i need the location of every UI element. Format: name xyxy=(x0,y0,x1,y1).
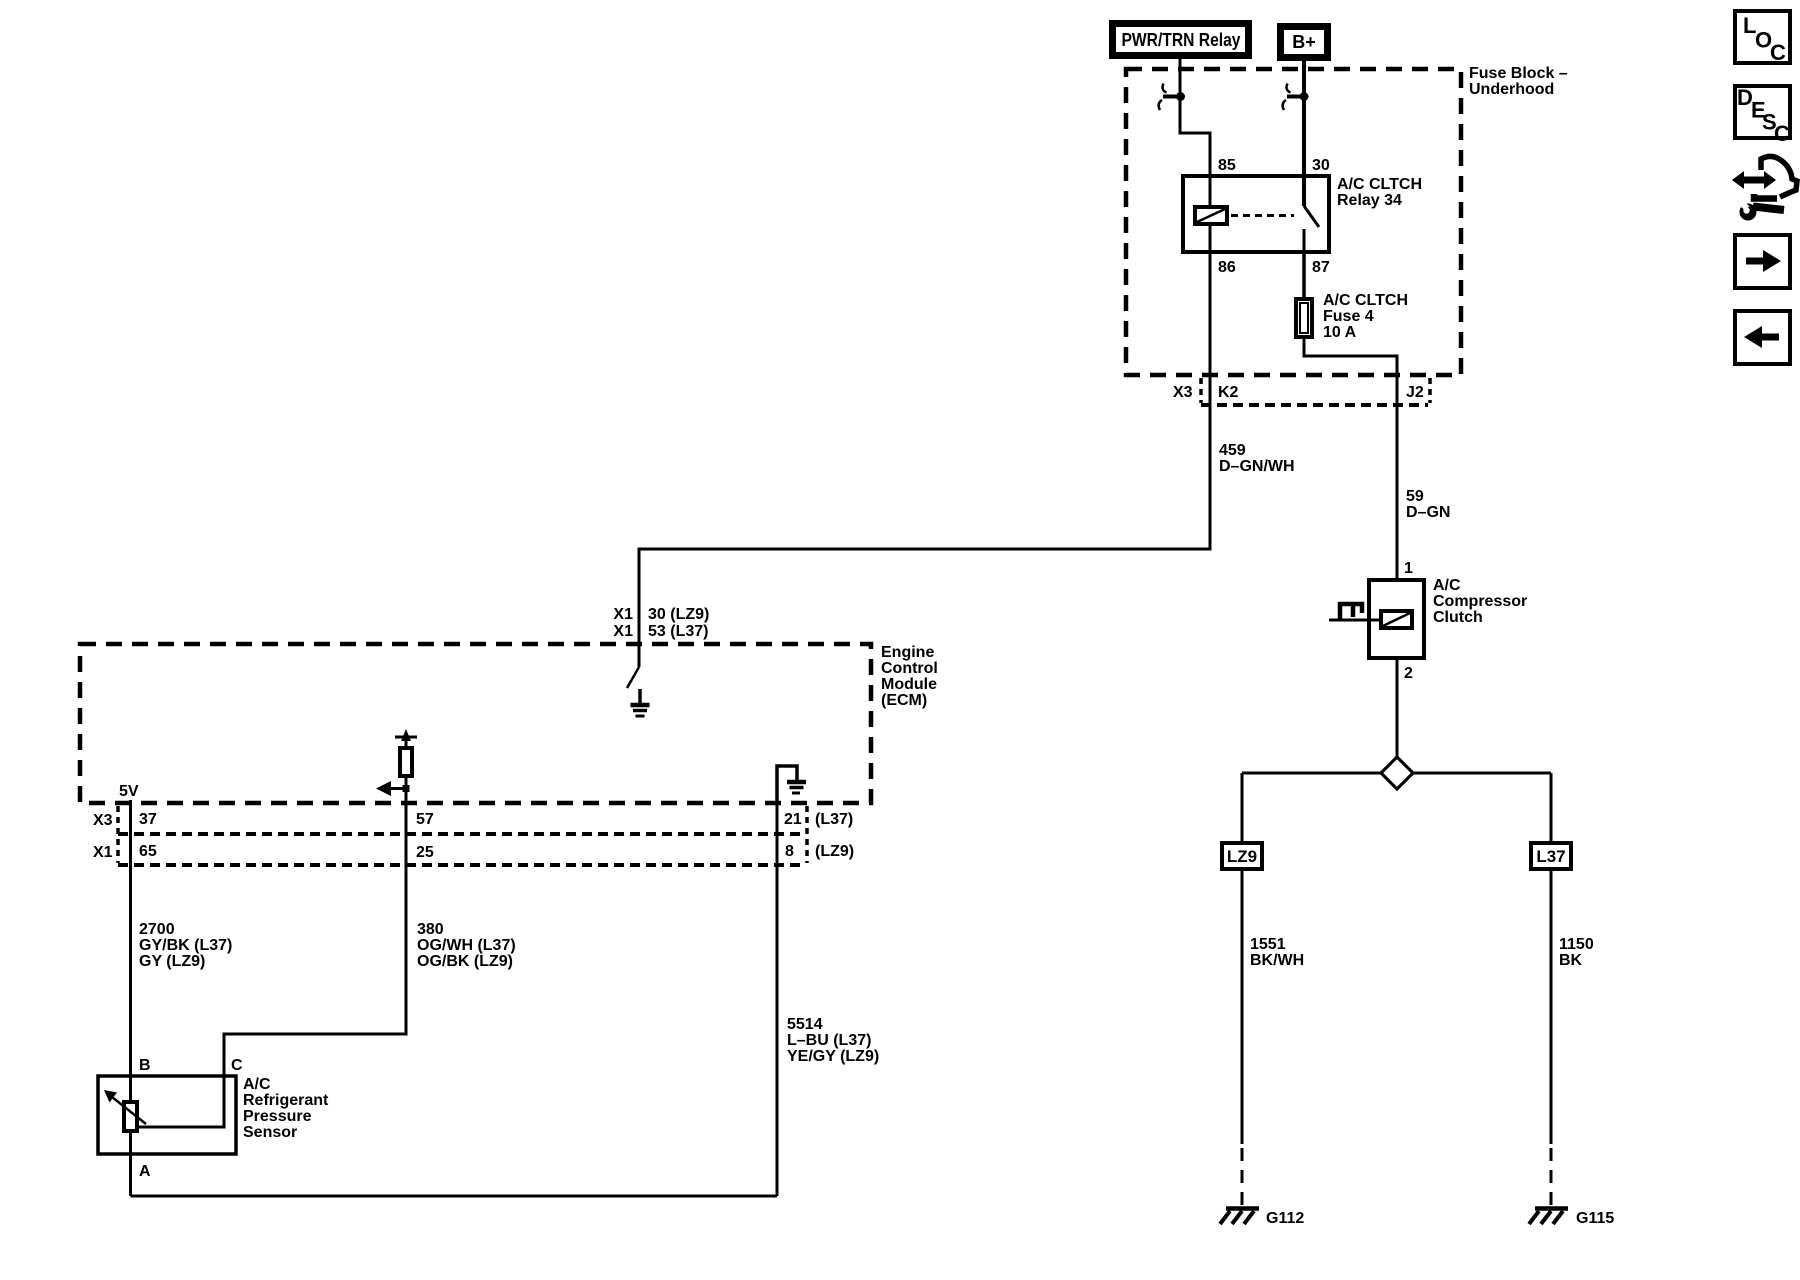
svg-text:Sensor: Sensor xyxy=(243,1124,297,1141)
svg-text:Relay 34: Relay 34 xyxy=(1337,192,1402,209)
svg-text:Pressure: Pressure xyxy=(243,1108,312,1125)
svg-text:B: B xyxy=(139,1057,151,1074)
svg-text:86: 86 xyxy=(1218,259,1236,276)
svg-text:YE/GY (LZ9): YE/GY (LZ9) xyxy=(787,1048,879,1065)
svg-text:OG/BK (LZ9): OG/BK (LZ9) xyxy=(417,953,513,970)
svg-text:87: 87 xyxy=(1312,259,1330,276)
svg-text:Module: Module xyxy=(881,676,937,693)
svg-text:1: 1 xyxy=(1404,560,1413,577)
svg-text:BK/WH: BK/WH xyxy=(1250,952,1304,969)
svg-text:BK: BK xyxy=(1559,952,1583,969)
svg-text:10 A: 10 A xyxy=(1323,324,1357,341)
svg-text:30 (LZ9): 30 (LZ9) xyxy=(648,606,709,623)
svg-text:C: C xyxy=(1770,40,1786,65)
svg-text:59: 59 xyxy=(1406,488,1424,505)
svg-text:8: 8 xyxy=(785,843,794,860)
svg-text:53 (L37): 53 (L37) xyxy=(648,623,708,640)
svg-text:21: 21 xyxy=(784,811,802,828)
svg-text:LZ9: LZ9 xyxy=(1227,847,1257,866)
svg-text:5V: 5V xyxy=(119,783,139,800)
svg-text:25: 25 xyxy=(416,844,434,861)
svg-text:GY (LZ9): GY (LZ9) xyxy=(139,953,205,970)
svg-text:Engine: Engine xyxy=(881,644,934,661)
svg-text:A/C: A/C xyxy=(1433,577,1461,594)
svg-text:PWR/TRN Relay: PWR/TRN Relay xyxy=(1122,30,1241,50)
svg-text:(ECM): (ECM) xyxy=(881,692,927,709)
svg-text:X3: X3 xyxy=(1173,384,1193,401)
svg-text:A/C: A/C xyxy=(243,1076,271,1093)
svg-text:Underhood: Underhood xyxy=(1469,81,1554,98)
svg-text:1150: 1150 xyxy=(1559,936,1594,953)
svg-text:C: C xyxy=(1774,121,1790,146)
svg-text:X3: X3 xyxy=(93,812,113,829)
svg-text:X1: X1 xyxy=(93,844,113,861)
svg-text:30: 30 xyxy=(1312,157,1330,174)
svg-text:380: 380 xyxy=(417,921,444,938)
svg-text:K2: K2 xyxy=(1218,384,1239,401)
svg-text:37: 37 xyxy=(139,811,157,828)
svg-text:G112: G112 xyxy=(1266,1210,1304,1227)
svg-text:G115: G115 xyxy=(1576,1210,1614,1227)
svg-text:C: C xyxy=(231,1057,243,1074)
svg-text:X1: X1 xyxy=(613,623,633,640)
svg-text:OG/WH (L37): OG/WH (L37) xyxy=(417,937,516,954)
svg-text:459: 459 xyxy=(1219,442,1246,459)
svg-text:B+: B+ xyxy=(1292,32,1316,52)
svg-text:Refrigerant: Refrigerant xyxy=(243,1092,329,1109)
svg-text:Clutch: Clutch xyxy=(1433,609,1483,626)
svg-text:X1: X1 xyxy=(613,606,633,623)
svg-text:Compressor: Compressor xyxy=(1433,593,1527,610)
svg-text:57: 57 xyxy=(416,811,434,828)
svg-text:A/C CLTCH: A/C CLTCH xyxy=(1323,292,1408,309)
svg-text:L–BU (L37): L–BU (L37) xyxy=(787,1032,871,1049)
svg-text:J2: J2 xyxy=(1406,384,1424,401)
svg-text:Fuse Block –: Fuse Block – xyxy=(1469,65,1568,82)
svg-text:2700: 2700 xyxy=(139,921,175,938)
svg-text:65: 65 xyxy=(139,843,157,860)
svg-text:A/C CLTCH: A/C CLTCH xyxy=(1337,176,1422,193)
svg-text:2: 2 xyxy=(1404,665,1413,682)
svg-text:L37: L37 xyxy=(1536,847,1565,866)
svg-text:GY/BK (L37): GY/BK (L37) xyxy=(139,937,232,954)
svg-text:D–GN: D–GN xyxy=(1406,504,1450,521)
svg-text:5514: 5514 xyxy=(787,1016,823,1033)
svg-text:1551: 1551 xyxy=(1250,936,1286,953)
svg-text:A: A xyxy=(139,1163,151,1180)
svg-text:Fuse 4: Fuse 4 xyxy=(1323,308,1374,325)
svg-text:(LZ9): (LZ9) xyxy=(815,843,854,860)
svg-text:D–GN/WH: D–GN/WH xyxy=(1219,458,1295,475)
svg-text:85: 85 xyxy=(1218,157,1236,174)
svg-text:Control: Control xyxy=(881,660,938,677)
svg-text:(L37): (L37) xyxy=(815,811,853,828)
